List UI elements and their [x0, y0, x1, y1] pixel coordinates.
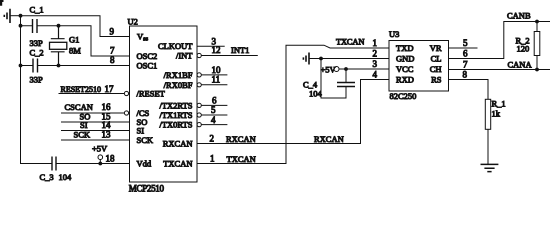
U2 pin 3 CLKOUT stub	[197, 37, 225, 47]
svg-text:CANA: CANA	[508, 59, 533, 69]
svg-text:U2: U2	[128, 17, 138, 27]
svg-text:VR: VR	[430, 43, 442, 53]
U2 pin 4 /TX0RTS stub	[197, 115, 227, 127]
net RESET2510 / pin 17	[59, 84, 129, 96]
svg-text:CANB: CANB	[507, 11, 531, 21]
net SCK / pin 13	[61, 130, 130, 141]
ground (middle)	[303, 53, 376, 65]
svg-text:1: 1	[210, 154, 215, 164]
svg-text:RXD: RXD	[396, 75, 414, 85]
wire: Vss rail to pin 9	[21, 16, 130, 37]
U2 pin 1 TXCAN wire to U3 TXD	[197, 37, 389, 164]
svg-text:/TX0RTS: /TX0RTS	[159, 120, 192, 130]
node: CANB-R2 junction	[535, 20, 539, 24]
svg-text:MCP2510: MCP2510	[129, 184, 165, 194]
svg-text:G1: G1	[69, 35, 79, 45]
svg-text:11: 11	[212, 75, 221, 85]
svg-text:SI: SI	[137, 126, 145, 136]
svg-text:14: 14	[102, 120, 112, 130]
svg-text:6: 6	[463, 49, 468, 59]
ground (top-left)	[4, 9, 20, 23]
svg-text:TXCAN: TXCAN	[336, 37, 364, 47]
capacitor C_3	[40, 157, 73, 183]
svg-text:INT1: INT1	[231, 45, 249, 55]
svg-text:GND: GND	[396, 54, 414, 64]
node: C4 gnd branch	[319, 57, 323, 61]
svg-text:7: 7	[110, 46, 115, 56]
U3 pin 6 CL wire to CANB	[449, 11, 550, 59]
svg-text:/RX1BF: /RX1BF	[164, 70, 193, 80]
resistor R_1	[485, 99, 505, 165]
svg-text:CLKOUT: CLKOUT	[158, 41, 193, 51]
svg-text:+5V: +5V	[92, 144, 108, 154]
svg-text:C_2: C_2	[30, 48, 44, 58]
svg-text:6: 6	[212, 95, 217, 105]
svg-text:33P: 33P	[30, 38, 44, 48]
svg-text:2: 2	[210, 134, 215, 144]
svg-text:/TX1RTS: /TX1RTS	[159, 110, 192, 120]
svg-text:SI: SI	[80, 120, 88, 130]
svg-text:13: 13	[102, 130, 112, 140]
svg-text:SCK: SCK	[137, 135, 154, 145]
svg-text:TXCAN: TXCAN	[227, 154, 256, 164]
svg-text:Vdd: Vdd	[137, 159, 152, 169]
U3 pin 5 VR stub	[449, 38, 478, 48]
svg-text:C_1: C_1	[30, 5, 44, 15]
crystal G1	[50, 26, 82, 66]
svg-text:120: 120	[517, 44, 530, 54]
svg-text:17: 17	[105, 84, 115, 94]
capacitor C_1	[21, 5, 59, 49]
power +5V port at U3 VCC	[321, 65, 377, 75]
node: trunk-ground junction	[19, 14, 23, 18]
IC U3 82C250	[389, 29, 449, 101]
svg-text:RXCAN: RXCAN	[226, 134, 256, 144]
power +5V port at pin 18	[92, 144, 115, 166]
svg-text:3: 3	[373, 59, 378, 69]
svg-text:2: 2	[373, 49, 378, 59]
svg-text:9: 9	[110, 27, 115, 37]
node: crystal top junction	[57, 24, 61, 28]
net SI / pin 14	[61, 120, 130, 131]
wire: Vdd pin 18	[56, 163, 130, 165]
svg-text:8: 8	[463, 70, 468, 80]
svg-text:/RX0BF: /RX0BF	[164, 80, 193, 90]
svg-text:/RESET: /RESET	[137, 89, 166, 99]
U2 pin 2 RXCAN wire to U3 RXD	[197, 80, 377, 144]
ground (bottom right)	[481, 164, 499, 171]
svg-text:4: 4	[211, 115, 216, 125]
capacitor C_4	[303, 59, 355, 99]
U3 left pin stubs	[373, 38, 390, 80]
node: CANA-R2 junction	[535, 68, 539, 72]
svg-text:CL: CL	[431, 54, 442, 64]
node: crystal bottom junction	[57, 64, 61, 68]
U2 pin 11 /RX0BF stub	[197, 75, 227, 87]
node: C4-VCC junction	[344, 67, 348, 71]
IC U2 MCP2510	[128, 17, 198, 194]
U3 pin 8 RS wire to R_1	[449, 70, 489, 100]
wire: rail2 to OSC2 pin 7	[59, 26, 130, 56]
wire: left trunk	[21, 16, 53, 164]
svg-text:/INT: /INT	[176, 51, 193, 61]
svg-text:TXCAN: TXCAN	[163, 159, 192, 169]
svg-text:RESET2510: RESET2510	[61, 85, 101, 94]
net SO / pin 15	[61, 111, 130, 122]
node: trunk-rail3 junction	[19, 64, 23, 68]
svg-text:RS: RS	[431, 75, 442, 85]
net CSCAN / pin 16	[61, 102, 129, 115]
wire: rail3 to OSC1 pin 8	[59, 65, 130, 67]
svg-text:RXCAN: RXCAN	[163, 139, 193, 149]
svg-text:OSC2: OSC2	[137, 51, 158, 61]
capacitor C_2	[21, 48, 59, 85]
svg-text:12: 12	[212, 45, 221, 55]
svg-text:Vss: Vss	[137, 32, 149, 43]
svg-text:1k: 1k	[492, 109, 501, 119]
svg-text:1: 1	[373, 38, 378, 48]
border corner mark	[0, 0, 4, 6]
svg-text:7: 7	[463, 60, 468, 70]
U3 pin 7 CH wire to CANA	[449, 59, 550, 69]
svg-text:/TX2RTS: /TX2RTS	[159, 100, 192, 110]
svg-text:VCC: VCC	[396, 64, 414, 74]
U2 pin 6 /TX2RTS stub	[197, 95, 227, 107]
svg-text:C_3: C_3	[40, 172, 54, 182]
svg-text:104: 104	[309, 89, 323, 99]
svg-text:82C250: 82C250	[390, 91, 417, 101]
resistor R_2	[516, 22, 540, 70]
svg-text:U3: U3	[389, 29, 399, 39]
svg-text:TXD: TXD	[396, 43, 413, 53]
svg-text:104: 104	[59, 172, 73, 182]
svg-text:5: 5	[211, 105, 216, 115]
svg-text:RXCAN: RXCAN	[314, 134, 344, 144]
svg-text:5: 5	[463, 38, 468, 48]
svg-text:CH: CH	[430, 64, 442, 74]
svg-text:8M: 8M	[69, 46, 81, 56]
svg-text:18: 18	[106, 154, 116, 164]
svg-text:OSC1: OSC1	[137, 61, 158, 71]
svg-text:10: 10	[212, 65, 222, 75]
svg-text:R_1: R_1	[492, 99, 506, 109]
svg-text:4: 4	[373, 70, 378, 80]
node: trunk-rail2 junction	[19, 24, 23, 28]
U2 pin 12 /INT wire	[197, 45, 258, 58]
U2 pin 5 /TX1RTS stub	[197, 105, 227, 117]
svg-text:SCK: SCK	[74, 130, 91, 140]
U2 pin 10 /RX1BF stub	[197, 65, 227, 77]
svg-text:33P: 33P	[30, 75, 44, 85]
